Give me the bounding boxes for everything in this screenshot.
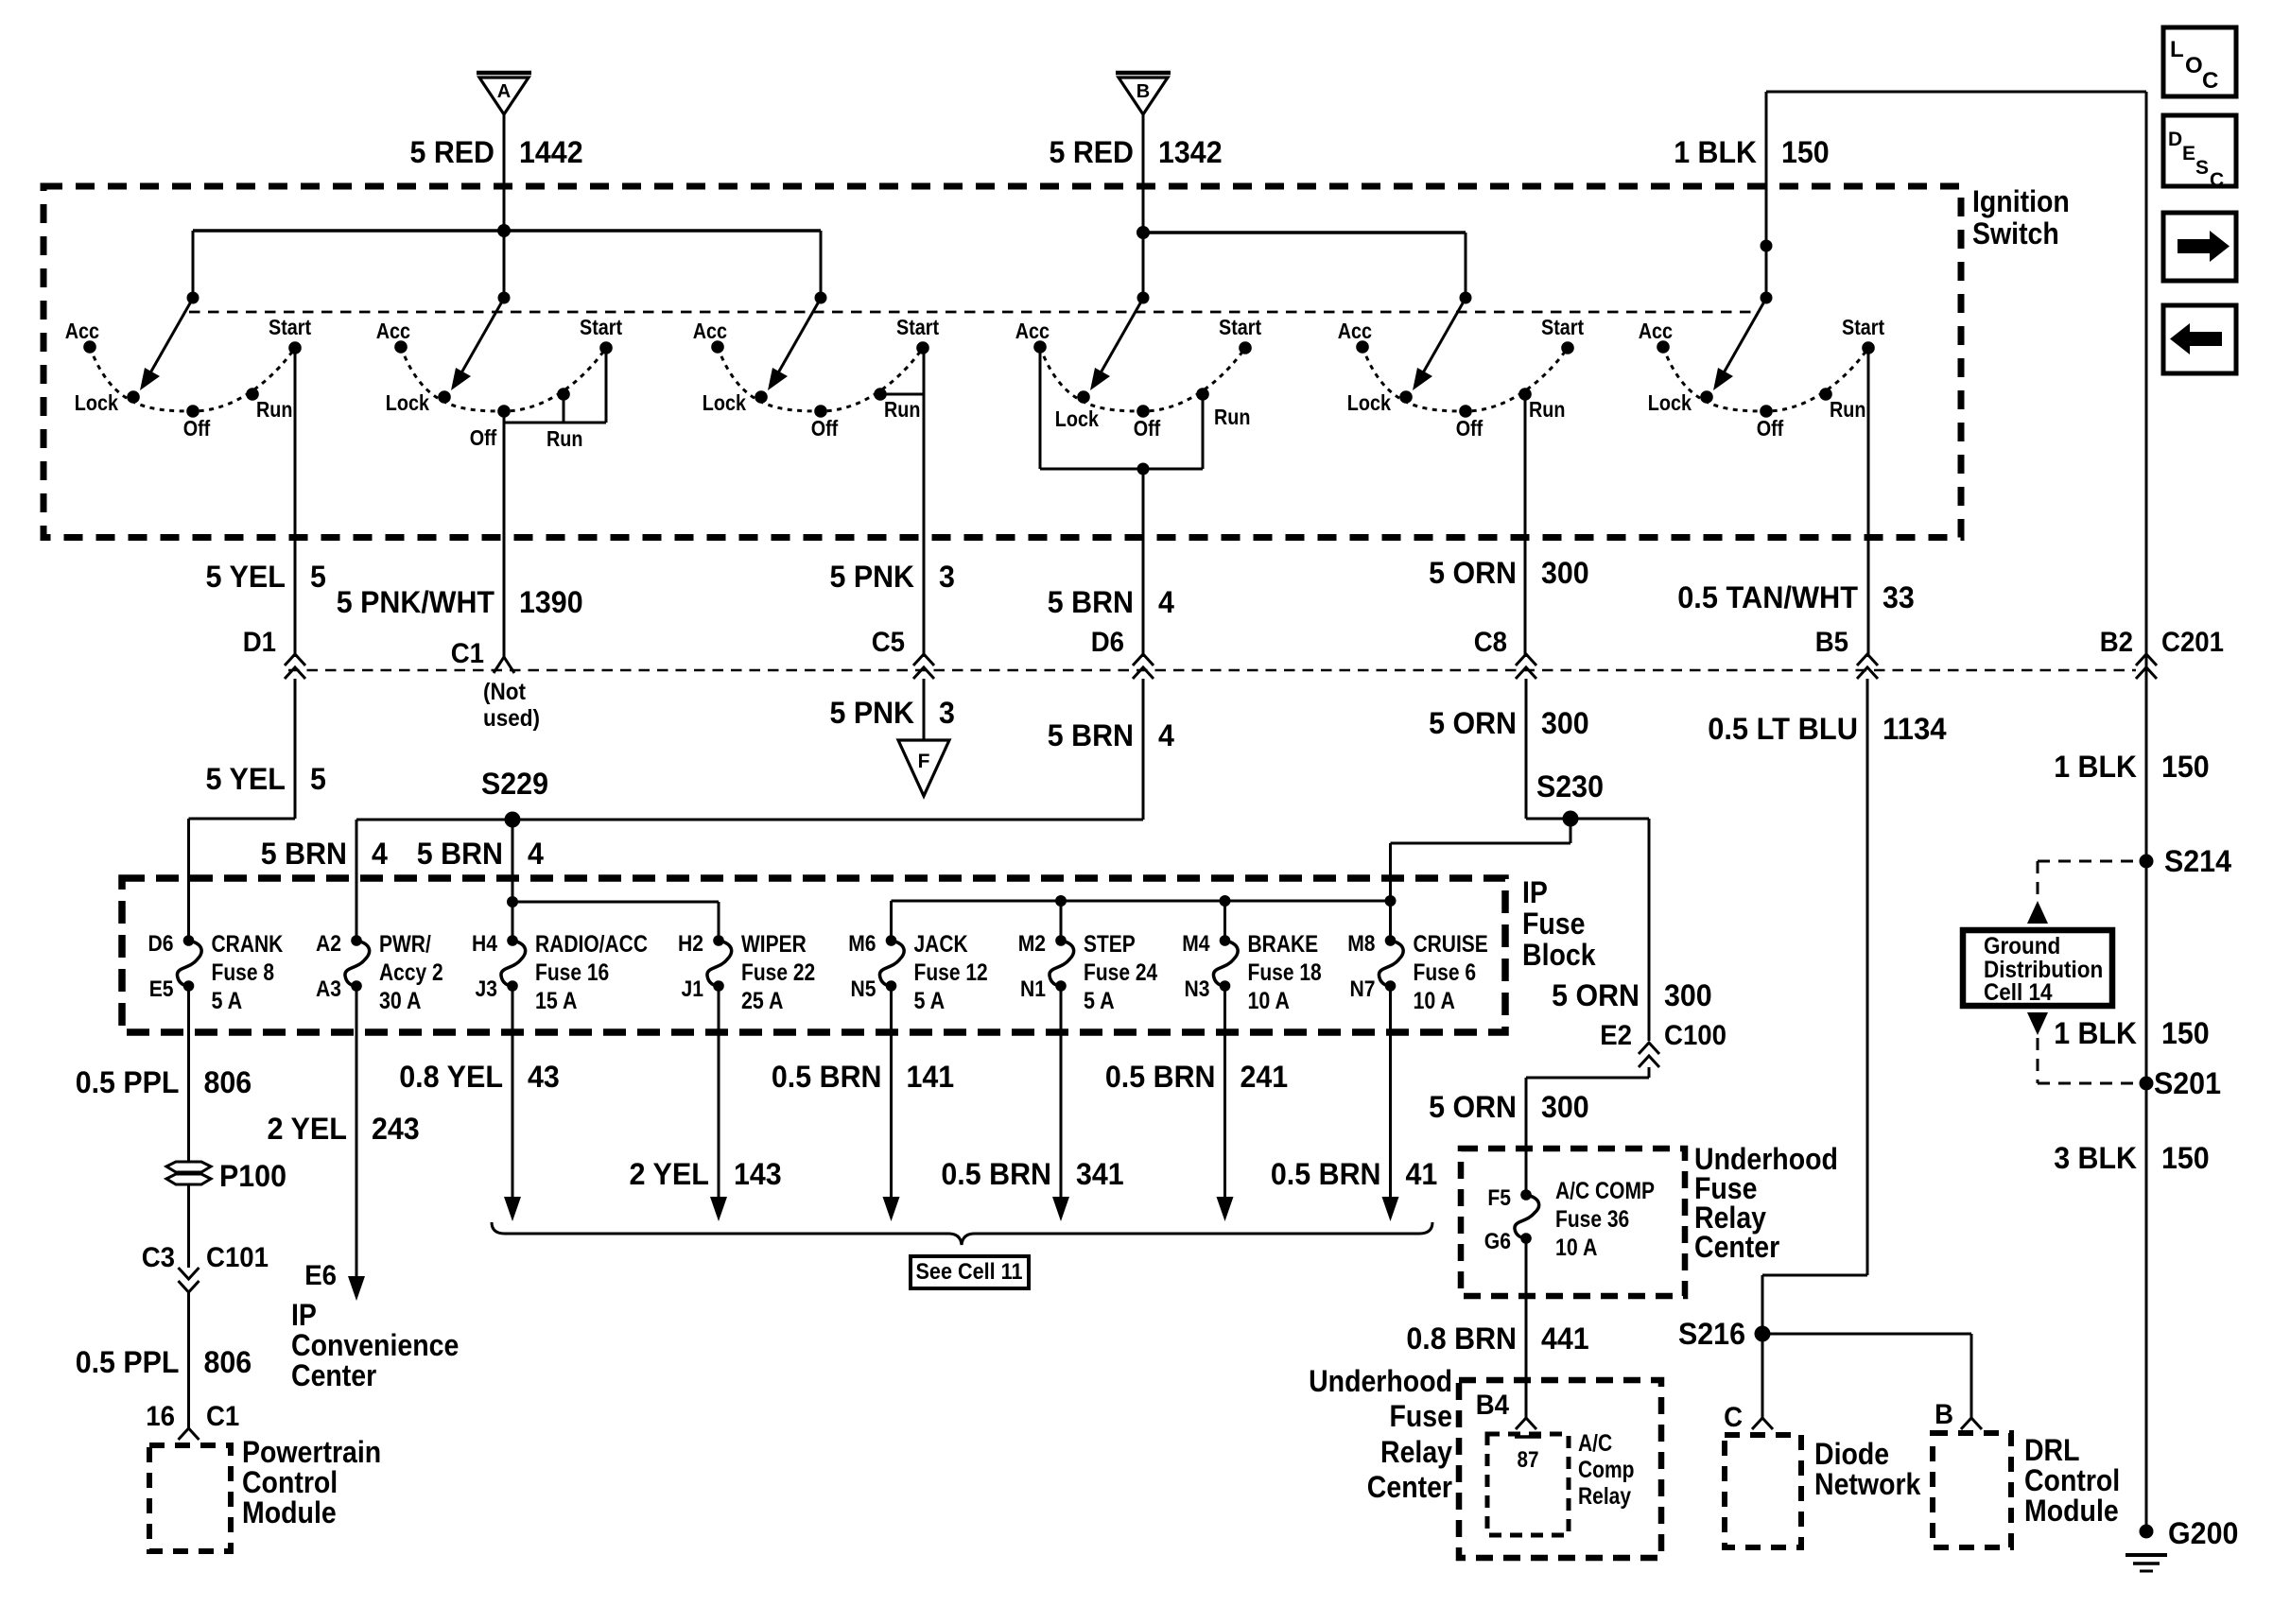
splice S201 xyxy=(2140,1066,2222,1100)
svg-text:10 A: 10 A xyxy=(1414,988,1455,1014)
connector C201 dashed line xyxy=(288,669,2136,672)
svg-text:M4: M4 xyxy=(1182,931,1210,957)
button DESC xyxy=(2163,115,2236,191)
SW5 output wire from Run contact xyxy=(1524,394,1527,657)
connector pin B at DRL module xyxy=(1935,1399,1982,1430)
bus from A to SW1-SW3 pivots xyxy=(193,231,821,295)
wire 0.5 PPL 806 to PCM xyxy=(187,1292,190,1428)
svg-text:E5: E5 xyxy=(149,976,174,1002)
svg-text:5: 5 xyxy=(310,560,326,594)
SW1 output wire from Start contact xyxy=(294,348,297,657)
svg-text:Fuse 16: Fuse 16 xyxy=(535,959,609,986)
svg-text:0.8 YEL: 0.8 YEL xyxy=(399,1060,503,1094)
wire from S216 to diode network xyxy=(1761,1334,1764,1418)
svg-text:F5: F5 xyxy=(1487,1185,1511,1211)
svg-text:300: 300 xyxy=(1541,706,1589,740)
button LOC xyxy=(2163,27,2236,96)
underhood fuse relay center dashed box (relay) xyxy=(1459,1380,1661,1558)
DRL Control Module dashed box xyxy=(1933,1433,2011,1547)
feed bus for JACK/STEP/BRAKE/CRUISE fuses xyxy=(892,895,1397,941)
svg-text:A: A xyxy=(497,81,511,102)
junction dot at B bus xyxy=(1136,226,1150,239)
connector pin D1 xyxy=(243,627,305,679)
svg-text:87: 87 xyxy=(1518,1447,1539,1473)
svg-text:5 RED: 5 RED xyxy=(410,135,495,169)
connector pin 16 C1 at PCM xyxy=(146,1401,239,1440)
svg-text:IP: IP xyxy=(291,1298,317,1332)
ignition switch pole 2 xyxy=(376,292,623,452)
svg-text:Lock: Lock xyxy=(1347,390,1391,415)
svg-text:300: 300 xyxy=(1541,556,1589,590)
svg-text:1342: 1342 xyxy=(1158,135,1223,169)
wire label 0.8 YEL 43 xyxy=(399,1060,560,1094)
connector triangle F xyxy=(898,740,949,796)
svg-text:5 A: 5 A xyxy=(914,988,946,1014)
svg-text:3: 3 xyxy=(939,560,955,594)
svg-text:Center: Center xyxy=(1694,1230,1779,1264)
svg-text:41: 41 xyxy=(1406,1157,1438,1191)
wire 0.5 BRN 241 to cell 11 xyxy=(1217,986,1234,1221)
SW2 output wire from Off contact with Run/Start tie xyxy=(504,348,606,657)
svg-text:Convenience: Convenience xyxy=(291,1328,459,1362)
svg-text:Control: Control xyxy=(2024,1463,2120,1497)
svg-text:IP: IP xyxy=(1522,875,1548,909)
wire label 5 BRN 4 (below C201) xyxy=(1048,718,1174,752)
SW3 Run-Start tie and output wire xyxy=(881,348,924,657)
svg-text:300: 300 xyxy=(1541,1090,1589,1124)
svg-text:C: C xyxy=(1724,1402,1743,1433)
wire label 0.5 PPL 806 (lower) xyxy=(76,1345,252,1379)
wire label 2 YEL 143 xyxy=(630,1157,782,1191)
svg-text:2 YEL: 2 YEL xyxy=(268,1112,348,1146)
svg-text:1390: 1390 xyxy=(519,585,583,619)
svg-text:P100: P100 xyxy=(219,1159,286,1193)
wire 0.5 BRN 141 to cell 11 xyxy=(883,986,900,1221)
svg-text:0.5 LT BLU: 0.5 LT BLU xyxy=(1708,712,1858,746)
See Cell 11 reference box xyxy=(911,1256,1029,1288)
svg-text:241: 241 xyxy=(1241,1060,1289,1094)
svg-text:5 ORN: 5 ORN xyxy=(1552,978,1640,1012)
svg-text:806: 806 xyxy=(204,1345,252,1379)
svg-text:150: 150 xyxy=(2161,1141,2210,1175)
svg-text:806: 806 xyxy=(204,1065,252,1099)
svg-text:C: C xyxy=(2202,68,2218,94)
svg-text:B4: B4 xyxy=(1476,1390,1510,1421)
svg-text:0.5 TAN/WHT: 0.5 TAN/WHT xyxy=(1677,580,1858,614)
svg-text:C201: C201 xyxy=(2161,627,2224,658)
connector C101 pin C3 xyxy=(142,1242,269,1292)
brace grouping wires to cell 11 xyxy=(492,1222,1432,1245)
svg-text:33: 33 xyxy=(1883,580,1915,614)
svg-text:Module: Module xyxy=(2024,1494,2119,1528)
wire label 5 RED 1442 xyxy=(410,135,583,169)
Powertrain Control Module dashed box xyxy=(149,1445,231,1551)
connector pin C8 xyxy=(1474,627,1536,679)
svg-text:0.5 BRN: 0.5 BRN xyxy=(941,1157,1051,1191)
svg-text:F: F xyxy=(918,751,930,772)
svg-text:5 PNK/WHT: 5 PNK/WHT xyxy=(337,585,495,619)
svg-text:1 BLK: 1 BLK xyxy=(2054,750,2137,784)
svg-text:C1: C1 xyxy=(206,1401,239,1432)
svg-text:4: 4 xyxy=(528,837,544,871)
svg-text:Fuse 6: Fuse 6 xyxy=(1414,959,1477,986)
svg-text:5 PNK: 5 PNK xyxy=(830,560,915,594)
svg-text:S229: S229 xyxy=(481,767,548,801)
svg-text:Acc: Acc xyxy=(376,319,410,343)
wire 5 PNK from C5 to F xyxy=(923,679,926,740)
svg-text:10 A: 10 A xyxy=(1555,1235,1597,1261)
ignition switch pole 3 xyxy=(693,292,940,441)
wire label 0.5 TAN/WHT 33 xyxy=(1677,580,1915,614)
svg-text:16: 16 xyxy=(146,1401,175,1432)
wire 0.8 BRN 441 from G6 to relay xyxy=(1525,1238,1528,1418)
wire S230 branch to CRUISE fuse feed xyxy=(1391,819,1571,901)
svg-text:2 YEL: 2 YEL xyxy=(630,1157,710,1191)
svg-text:DRL: DRL xyxy=(2024,1433,2080,1467)
wire 5 ORN from C8 to S230 xyxy=(1526,679,1649,819)
connector pin B5 xyxy=(1815,627,1878,679)
svg-text:5 YEL: 5 YEL xyxy=(206,762,286,796)
svg-text:Off: Off xyxy=(1456,416,1484,441)
wire 5 BRN from D6 to S229 bus xyxy=(356,679,1143,941)
connector pin B4 xyxy=(1476,1390,1536,1429)
wire label 5 BRN 4 (left of A2) xyxy=(261,837,388,871)
svg-text:150: 150 xyxy=(1781,135,1830,169)
splice S216 xyxy=(1678,1317,1771,1351)
svg-text:CRUISE: CRUISE xyxy=(1414,931,1488,958)
Diode Network dashed box xyxy=(1725,1435,1801,1547)
fuse RADIO/ACC Fuse 16 (H4/J3) xyxy=(472,931,648,1014)
svg-text:C3: C3 xyxy=(142,1242,175,1273)
svg-text:Relay: Relay xyxy=(1578,1483,1631,1510)
wire 0.5 PPL below P100 xyxy=(187,1184,190,1268)
svg-text:N1: N1 xyxy=(1020,976,1046,1002)
svg-text:(Not: (Not xyxy=(483,679,527,705)
svg-text:BRAKE: BRAKE xyxy=(1248,931,1319,958)
svg-text:5 ORN: 5 ORN xyxy=(1429,556,1517,590)
wire label 1 BLK 150 (top) xyxy=(1674,135,1830,169)
fuse CRANK Fuse 8 (D6/E5) xyxy=(148,931,284,1014)
svg-text:4: 4 xyxy=(1158,718,1174,752)
svg-text:150: 150 xyxy=(2161,1016,2210,1050)
svg-text:Diode: Diode xyxy=(1814,1437,1889,1471)
svg-text:E: E xyxy=(2182,143,2195,164)
svg-text:Fuse 36: Fuse 36 xyxy=(1555,1206,1629,1233)
svg-text:4: 4 xyxy=(1158,585,1174,619)
svg-text:0.5 PPL: 0.5 PPL xyxy=(76,1345,180,1379)
svg-text:Start: Start xyxy=(1541,315,1584,339)
svg-text:S216: S216 xyxy=(1678,1317,1745,1351)
svg-text:A/C COMP: A/C COMP xyxy=(1555,1178,1655,1204)
svg-text:J1: J1 xyxy=(682,976,704,1002)
svg-text:Fuse: Fuse xyxy=(1390,1399,1453,1433)
svg-text:Run: Run xyxy=(256,397,292,422)
svg-text:143: 143 xyxy=(734,1157,782,1191)
svg-text:Start: Start xyxy=(1219,315,1261,339)
svg-text:5 BRN: 5 BRN xyxy=(1048,585,1134,619)
wire label 0.8 BRN 441 xyxy=(1406,1322,1588,1356)
svg-text:B2: B2 xyxy=(2100,627,2133,658)
wire label 5 BRN 4 (above C201) xyxy=(1048,585,1174,619)
fuse BRAKE Fuse 18 (M4/N3) xyxy=(1182,931,1322,1014)
svg-text:M6: M6 xyxy=(848,931,876,957)
fuse CRUISE Fuse 6 (M8/N7) xyxy=(1347,931,1488,1014)
svg-text:3 BLK: 3 BLK xyxy=(2054,1141,2137,1175)
fuse A/C COMP Fuse 36 (F5/G6) xyxy=(1484,1178,1655,1261)
svg-text:N7: N7 xyxy=(1350,976,1376,1002)
label IP Fuse Block xyxy=(1522,875,1596,972)
connector triangle B (feed) xyxy=(1116,73,1171,231)
wire label 0.5 BRN 141 xyxy=(772,1060,954,1094)
connector pin D6 xyxy=(1091,627,1154,679)
svg-text:Start: Start xyxy=(580,315,622,339)
dashed branch from S214 xyxy=(2038,861,2133,898)
wire 0.5 LT BLU from B5 to S216 xyxy=(1762,679,1867,1334)
svg-text:Fuse 18: Fuse 18 xyxy=(1248,959,1322,986)
svg-text:Cell 14: Cell 14 xyxy=(1984,979,2053,1006)
bus from B to SW4-SW5 pivots xyxy=(1143,233,1466,295)
svg-text:Run: Run xyxy=(1214,405,1250,429)
splice S214 xyxy=(2140,844,2232,878)
wire label 0.5 PPL 806 xyxy=(76,1065,252,1099)
svg-text:A/C: A/C xyxy=(1578,1430,1612,1457)
svg-text:C1: C1 xyxy=(451,638,484,669)
svg-text:300: 300 xyxy=(1664,978,1712,1012)
wire 0.5 BRN 41 to cell 11 xyxy=(1382,986,1399,1221)
svg-text:43: 43 xyxy=(528,1060,560,1094)
button next arrow xyxy=(2163,213,2236,281)
svg-text:Off: Off xyxy=(811,416,839,441)
label IP Convenience Center xyxy=(291,1298,459,1392)
svg-text:Ground: Ground xyxy=(1984,933,2060,959)
svg-text:5 BRN: 5 BRN xyxy=(261,837,347,871)
svg-text:5 A: 5 A xyxy=(1084,988,1115,1014)
svg-text:Run: Run xyxy=(1529,397,1565,422)
SW6 output wire from Start contact xyxy=(1867,348,1870,657)
label A/C Comp Relay xyxy=(1578,1430,1635,1510)
svg-text:B: B xyxy=(1935,1399,1953,1430)
svg-text:Fuse 24: Fuse 24 xyxy=(1084,959,1157,986)
connector pin B2 of C201 xyxy=(2100,627,2224,679)
svg-text:C101: C101 xyxy=(206,1242,269,1273)
svg-text:Run: Run xyxy=(1830,397,1865,422)
underhood fuse relay center dashed box (fuse) xyxy=(1461,1149,1685,1296)
wire from S216 to DRL control module xyxy=(1762,1334,1971,1418)
svg-text:Off: Off xyxy=(1134,416,1161,441)
svg-text:Lock: Lock xyxy=(386,390,429,415)
svg-text:5 ORN: 5 ORN xyxy=(1429,1090,1517,1124)
svg-text:5 PNK: 5 PNK xyxy=(830,696,915,730)
svg-text:5 YEL: 5 YEL xyxy=(206,560,286,594)
button previous arrow xyxy=(2163,305,2236,373)
arrow into ground distribution xyxy=(2027,901,2048,924)
label Ignition Switch xyxy=(1972,184,2070,251)
Ground Distribution Cell 14 box xyxy=(1963,930,2112,1006)
connector pin E6 xyxy=(304,1260,337,1291)
wire 5 YEL from D1 to CRANK fuse xyxy=(189,679,296,941)
wire label 0.5 LT BLU 1134 xyxy=(1708,712,1947,746)
svg-text:Acc: Acc xyxy=(693,319,727,343)
svg-text:1134: 1134 xyxy=(1883,712,1947,746)
wire S230 branch to C100 xyxy=(1648,819,1651,1041)
wire label 5 PNK/WHT 1390 xyxy=(337,585,583,619)
svg-text:STEP: STEP xyxy=(1084,931,1136,958)
svg-text:0.5 BRN: 0.5 BRN xyxy=(1271,1157,1381,1191)
svg-text:M2: M2 xyxy=(1018,931,1046,957)
svg-text:Center: Center xyxy=(1367,1470,1452,1504)
svg-text:5 A: 5 A xyxy=(212,988,243,1014)
svg-text:1442: 1442 xyxy=(519,135,583,169)
fuse JACK Fuse 12 (M6/N5) xyxy=(848,931,987,1014)
svg-text:C: C xyxy=(2210,169,2224,191)
ground G200 xyxy=(2126,1516,2238,1571)
A/C Comp Relay dashed box xyxy=(1487,1434,1569,1535)
ignition switch pole 5 xyxy=(1338,292,1585,441)
connector triangle A (feed) xyxy=(477,73,531,231)
svg-text:Start: Start xyxy=(269,315,311,339)
wire label 5 PNK 3 (below C201) xyxy=(830,696,955,730)
svg-text:A2: A2 xyxy=(316,931,341,957)
svg-text:CRANK: CRANK xyxy=(212,931,284,958)
label Powertrain Control Module xyxy=(242,1435,381,1529)
label DRL Control Module xyxy=(2024,1433,2120,1528)
wire label 3 BLK 150 xyxy=(2054,1141,2210,1175)
svg-text:Run: Run xyxy=(547,426,582,451)
svg-text:S201: S201 xyxy=(2154,1066,2221,1100)
ignition switch pole 6 xyxy=(1639,292,1885,441)
svg-text:0.5 BRN: 0.5 BRN xyxy=(1105,1060,1216,1094)
svg-text:O: O xyxy=(2185,53,2203,78)
splice S229 xyxy=(481,767,548,828)
svg-text:Acc: Acc xyxy=(65,319,99,343)
svg-text:N5: N5 xyxy=(851,976,876,1002)
wire label 1 BLK 150 (middle right) xyxy=(2054,1016,2210,1050)
junction dot at A bus xyxy=(497,224,511,237)
svg-text:Off: Off xyxy=(183,416,211,441)
wire label 0.5 BRN 241 xyxy=(1105,1060,1288,1094)
svg-text:0.5 BRN: 0.5 BRN xyxy=(772,1060,882,1094)
svg-text:Lock: Lock xyxy=(703,390,746,415)
wire label 5 YEL 5 (below C201) xyxy=(206,762,326,796)
svg-text:See Cell 11: See Cell 11 xyxy=(916,1259,1023,1285)
svg-text:10 A: 10 A xyxy=(1248,988,1290,1014)
grommet P100 xyxy=(166,1159,286,1193)
connector C100 pin E2 xyxy=(1600,1020,1726,1067)
wire label 5 ORN 300 (below C201) xyxy=(1429,706,1589,740)
svg-text:Lock: Lock xyxy=(75,390,118,415)
wire 0.5 PPL 806 from CRANK fuse xyxy=(187,986,190,1163)
wire 0.8 YEL 43 to cell 11 xyxy=(504,986,521,1221)
svg-text:Acc: Acc xyxy=(1015,319,1050,343)
wire label 5 ORN 300 (above C100) xyxy=(1552,978,1712,1012)
splice S230 xyxy=(1536,769,1604,827)
svg-text:1 BLK: 1 BLK xyxy=(2054,1016,2137,1050)
svg-text:Start: Start xyxy=(1842,315,1884,339)
svg-text:B: B xyxy=(1136,81,1150,102)
svg-text:Underhood: Underhood xyxy=(1309,1364,1452,1398)
svg-text:Comp: Comp xyxy=(1578,1457,1635,1483)
svg-text:M8: M8 xyxy=(1347,931,1375,957)
relay pin 87 with contact bar xyxy=(1515,1437,1541,1473)
svg-text:Control: Control xyxy=(242,1465,338,1499)
wire label 5 ORN 300 (above F5) xyxy=(1429,1090,1589,1124)
svg-text:Fuse 22: Fuse 22 xyxy=(741,959,815,986)
junction dot on 1 BLK wire xyxy=(1761,240,1773,252)
svg-text:141: 141 xyxy=(907,1060,955,1094)
svg-text:D1: D1 xyxy=(243,627,276,658)
wire label 5 PNK 3 (above C201) xyxy=(830,560,955,594)
svg-text:N3: N3 xyxy=(1185,976,1210,1002)
wire 2 YEL 243 to IP convenience center xyxy=(348,986,365,1301)
svg-text:J3: J3 xyxy=(476,976,498,1002)
svg-text:Module: Module xyxy=(242,1495,337,1529)
fuse PWR/ Accy 2 (A2/A3) xyxy=(316,931,443,1014)
svg-text:S230: S230 xyxy=(1536,769,1604,803)
svg-text:4: 4 xyxy=(372,837,388,871)
svg-text:D: D xyxy=(2168,129,2182,150)
svg-text:Off: Off xyxy=(1757,416,1784,441)
wire label 0.5 BRN 341 xyxy=(941,1157,1123,1191)
svg-text:Block: Block xyxy=(1522,938,1596,972)
wire branch from RADIO/ACC feed to WIPER fuse xyxy=(507,896,719,941)
svg-text:Fuse 8: Fuse 8 xyxy=(212,959,275,986)
svg-text:0.8 BRN: 0.8 BRN xyxy=(1406,1322,1517,1356)
SW4 output from Acc contact with Run tie xyxy=(1040,347,1203,657)
svg-text:used): used) xyxy=(483,705,540,732)
svg-text:Run: Run xyxy=(884,397,920,422)
label Underhood Fuse Relay Center (upper) xyxy=(1694,1142,1838,1264)
svg-text:Acc: Acc xyxy=(1639,319,1673,343)
svg-text:Start: Start xyxy=(896,315,939,339)
svg-text:Ignition: Ignition xyxy=(1972,184,2070,218)
wire from S229 to RADIO/ACC fuse xyxy=(512,820,514,941)
svg-text:C8: C8 xyxy=(1474,627,1507,658)
svg-text:Switch: Switch xyxy=(1972,216,2059,251)
svg-text:0.5 PPL: 0.5 PPL xyxy=(76,1065,180,1099)
wire 2 YEL 143 to cell 11 xyxy=(710,986,727,1221)
svg-text:PWR/: PWR/ xyxy=(379,931,431,958)
connector pin C1 (not used) xyxy=(451,638,540,732)
svg-text:5 BRN: 5 BRN xyxy=(417,837,503,871)
svg-text:Fuse: Fuse xyxy=(1522,907,1586,941)
svg-text:C5: C5 xyxy=(872,627,905,658)
ignition switch dashed enclosure xyxy=(43,186,1961,538)
svg-text:Center: Center xyxy=(291,1358,376,1392)
connector pin C5 xyxy=(872,627,934,679)
svg-text:H2: H2 xyxy=(678,931,703,957)
svg-text:E6: E6 xyxy=(304,1260,337,1291)
svg-text:Lock: Lock xyxy=(1055,406,1099,431)
svg-text:Acc: Acc xyxy=(1338,319,1372,343)
svg-text:G200: G200 xyxy=(2168,1516,2238,1550)
svg-text:3: 3 xyxy=(939,696,955,730)
wire label 5 RED 1342 xyxy=(1050,135,1223,169)
svg-text:243: 243 xyxy=(372,1112,420,1146)
svg-text:Relay: Relay xyxy=(1380,1435,1452,1469)
label Underhood Fuse Relay Center (lower) xyxy=(1309,1364,1452,1504)
svg-text:25 A: 25 A xyxy=(741,988,783,1014)
dashed branch to S201 xyxy=(2038,1038,2133,1083)
IP fuse block dashed enclosure xyxy=(122,878,1505,1032)
ground bus wire right side to G200 xyxy=(2145,92,2148,1531)
svg-text:JACK: JACK xyxy=(914,931,968,958)
svg-text:5 RED: 5 RED xyxy=(1050,135,1135,169)
svg-text:5: 5 xyxy=(310,762,326,796)
svg-text:Accy 2: Accy 2 xyxy=(379,959,443,986)
wire 5 ORN from C100 to A/C COMP fuse xyxy=(1526,1067,1649,1195)
wire 1 BLK 150 top run xyxy=(1766,92,2146,298)
label Diode Network xyxy=(1814,1437,1921,1501)
